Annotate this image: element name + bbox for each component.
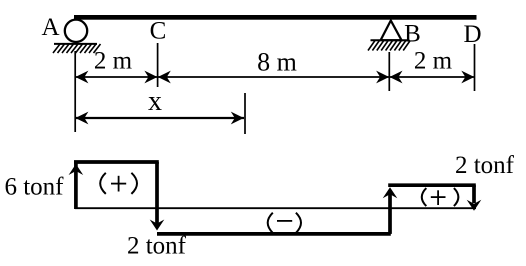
extension line for x — [244, 93, 246, 134]
svg-text:A: A — [41, 14, 59, 41]
extension line at A — [74, 51, 76, 132]
shear +2 top line — [388, 183, 476, 187]
shear +6 top line — [74, 160, 159, 164]
dim arrowheads at C — [144, 71, 170, 84]
hatching at B — [368, 41, 410, 51]
shear -2 bottom line — [157, 232, 391, 236]
shear vertical drop at C — [155, 162, 159, 224]
dim arrowhead at A (left) — [75, 71, 88, 84]
x dim arrowhead left — [75, 112, 88, 125]
shear vertical drop at D — [472, 185, 476, 203]
x dim arrowhead right — [231, 112, 244, 125]
extension line at B — [388, 52, 390, 91]
label (-) — [268, 213, 301, 233]
roller support at A (circle) — [65, 20, 87, 42]
svg-text:B: B — [404, 21, 421, 48]
x dimension line — [75, 117, 244, 119]
dimension line A-D — [75, 76, 474, 78]
svg-text:2 m: 2 m — [414, 48, 453, 75]
extension line at D — [474, 44, 476, 91]
beam AD — [74, 15, 477, 20]
ground line at B — [371, 39, 410, 41]
down arrowhead at C (2 tonf drop) — [150, 220, 165, 231]
down arrowhead at D (2 tonf) — [467, 200, 482, 211]
up arrowhead at B — [383, 187, 398, 198]
pin support at B (triangle) — [381, 21, 402, 41]
svg-text:8 m: 8 m — [257, 48, 297, 77]
up arrowhead at A (6 tonf reaction) — [69, 164, 84, 175]
svg-text:2 tonf: 2 tonf — [455, 152, 515, 179]
dim arrowheads at B — [376, 71, 402, 84]
hatching at A — [53, 44, 101, 53]
dim arrowhead at D (right) — [461, 71, 474, 84]
svg-text:2 tonf: 2 tonf — [127, 233, 187, 260]
ground line at A — [54, 43, 97, 45]
shear left vertical (reaction at A) — [74, 163, 78, 209]
shear baseline — [75, 207, 476, 209]
label (+) right — [422, 188, 459, 206]
svg-text:6 tonf: 6 tonf — [4, 174, 64, 201]
svg-text:C: C — [150, 18, 167, 45]
extension line at C — [157, 43, 159, 87]
svg-text:2 m: 2 m — [94, 48, 133, 75]
svg-text:x: x — [148, 86, 162, 117]
label (+) left — [100, 173, 137, 194]
svg-text:D: D — [463, 21, 481, 48]
shear vertical rise at B (reaction) — [388, 190, 392, 234]
